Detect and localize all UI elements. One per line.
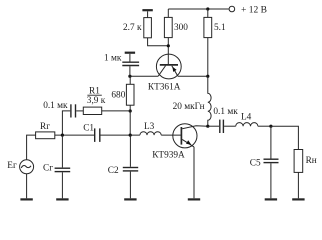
wire: cap to L4 xyxy=(224,125,236,127)
wire: L4 to C5 node xyxy=(258,125,271,127)
transistor VT2 KT939A (NPN) xyxy=(173,124,208,148)
wire: C5 to ground xyxy=(270,163,272,198)
svg-text:L4: L4 xyxy=(241,113,252,123)
inductor L4 xyxy=(236,123,258,127)
node: 300/2.7k/base junction xyxy=(167,44,170,47)
svg-text:5.1: 5.1 xyxy=(214,23,226,33)
wire: Rн to ground xyxy=(297,172,299,198)
svg-text:20 мкГн: 20 мкГн xyxy=(173,102,205,112)
ground (top bar above 2.7k resistor) xyxy=(142,9,152,11)
node: base network junction xyxy=(128,75,131,78)
KT939A base bar xyxy=(180,127,182,145)
wire: Ег bottom to ground xyxy=(26,174,28,199)
wire: Rг to Cг node xyxy=(55,134,94,136)
ground (C2) xyxy=(124,198,136,200)
resistor 300 body xyxy=(164,17,172,37)
resistor Rн body xyxy=(294,150,303,173)
svg-text:0.1 мк: 0.1 мк xyxy=(43,101,68,111)
wire: 2.7k bottom to node xyxy=(148,38,169,46)
inductor L3 xyxy=(140,132,161,135)
svg-text:КТ939А: КТ939А xyxy=(152,151,185,161)
node: rail/5.1 junction xyxy=(206,7,209,10)
svg-text:3,9 к: 3,9 к xyxy=(87,96,106,106)
svg-text:КТ361А: КТ361А xyxy=(148,83,181,93)
transistor VT1 KT361A (PNP) xyxy=(156,54,181,79)
KT361A base bar xyxy=(160,64,178,66)
wire: Сг to ground xyxy=(61,172,63,198)
capacitor Сг xyxy=(55,167,71,169)
wire: 5.1 bottom to emitter node xyxy=(207,38,209,77)
resistor 5.1 body xyxy=(204,17,212,37)
svg-text:L3: L3 xyxy=(144,122,155,132)
svg-text:+ 12 В: + 12 В xyxy=(241,6,267,16)
wire: top bar to 2.7k resistor xyxy=(147,11,149,17)
wire: C2 to ground xyxy=(129,172,131,199)
KT361A circle xyxy=(156,54,181,79)
capacitor C1 xyxy=(94,128,96,142)
wire: bar to 1uF top plate xyxy=(129,54,131,62)
resistor 680 body xyxy=(126,84,134,105)
wire: rail down to 300 resistor xyxy=(167,9,169,17)
Ег sine wave xyxy=(21,166,31,168)
ground (Сг) xyxy=(56,198,68,200)
svg-text:C1: C1 xyxy=(83,124,94,134)
KT939A circle xyxy=(173,124,197,148)
resistor 2.7k body xyxy=(144,18,152,38)
wire: +12V top rail xyxy=(168,8,229,10)
ground (top bar above 1uF capacitor) xyxy=(125,52,135,54)
svg-text:2.7 к: 2.7 к xyxy=(123,23,142,33)
wire: KT361A right lead to 5.1 node xyxy=(178,75,208,77)
source Ег (AC generator) xyxy=(20,160,34,174)
wire: R1 to 680 node xyxy=(102,110,131,112)
node: emitter/5.1/choke junction xyxy=(206,75,209,78)
svg-text:С5: С5 xyxy=(250,159,261,169)
KT361A collector diagonal (left) xyxy=(158,66,165,77)
resistor Rг body xyxy=(36,132,55,139)
capacitor 1мк xyxy=(122,61,139,63)
wire: rail down to 5.1 resistor xyxy=(207,9,209,17)
svg-text:Rн: Rн xyxy=(306,156,317,166)
KT361A emitter diagonal (right) xyxy=(172,66,178,77)
svg-text:C2: C2 xyxy=(108,166,119,176)
wire: L3 to KT939A base xyxy=(161,134,181,136)
wire: 680 bottom to R1 node xyxy=(129,105,131,111)
node: C1/L3/C2 junction xyxy=(129,134,132,137)
KT939A emitter diagonal xyxy=(182,139,194,147)
label: fraction bar xyxy=(87,94,101,96)
svg-text:680: 680 xyxy=(111,90,125,100)
wire: node to output cap xyxy=(208,125,219,127)
resistor R1 3,9k body xyxy=(83,107,101,114)
ground (Rн) xyxy=(292,198,304,200)
KT361A emitter arrow (points to base) xyxy=(172,67,176,72)
wire: node down to C5 xyxy=(270,126,272,158)
svg-text:0.1 мк: 0.1 мк xyxy=(213,107,238,117)
ground (C5) xyxy=(265,198,277,200)
terminal: +12V open circle xyxy=(229,6,235,12)
wire: KT361A left lead to 680/1uF node xyxy=(130,75,158,77)
wire: R1 node down to C1 line node xyxy=(129,111,131,135)
capacitor 0.1мк output xyxy=(219,120,221,133)
wire: emitter down to ground xyxy=(193,147,195,198)
ground (Ег) xyxy=(20,198,32,200)
capacitor 0.1мк input xyxy=(70,104,72,117)
svg-text:1 мк: 1 мк xyxy=(104,54,122,64)
wire: Ег top to main line xyxy=(27,135,36,160)
wire: cap to R1 xyxy=(76,110,83,112)
wire: corner to input cap xyxy=(62,111,70,135)
node: Rг/Cг junction xyxy=(61,134,64,137)
capacitor C2 xyxy=(123,167,138,169)
wire: node to Rн corner xyxy=(271,126,299,149)
inductor 20 мкГн (choke) xyxy=(208,76,211,126)
svg-text:Ег: Ег xyxy=(7,161,17,171)
svg-text:Rг: Rг xyxy=(40,122,50,132)
KT939A emitter arrow (NPN points out) xyxy=(186,140,191,144)
node: 680/R1 junction xyxy=(129,109,132,112)
wire: 1uF bottom plate to node xyxy=(129,66,131,76)
KT939A collector lead xyxy=(182,126,208,129)
svg-text:Сг: Сг xyxy=(43,164,53,174)
node: C5/Rн junction xyxy=(269,125,272,128)
svg-text:300: 300 xyxy=(174,23,188,33)
node: choke/collector/output junction xyxy=(206,125,209,128)
wire: C1 to L3 node xyxy=(101,134,140,136)
wire: node down to 680 resistor xyxy=(129,76,131,84)
wire: node down to C2 xyxy=(129,135,131,167)
Ег circle xyxy=(20,160,34,174)
ground (KT939A emitter) xyxy=(188,198,200,200)
wire: 300 bottom through node to transistor base xyxy=(167,38,169,65)
capacitor C5 xyxy=(264,158,279,160)
wire: node down to Cг xyxy=(61,135,63,167)
